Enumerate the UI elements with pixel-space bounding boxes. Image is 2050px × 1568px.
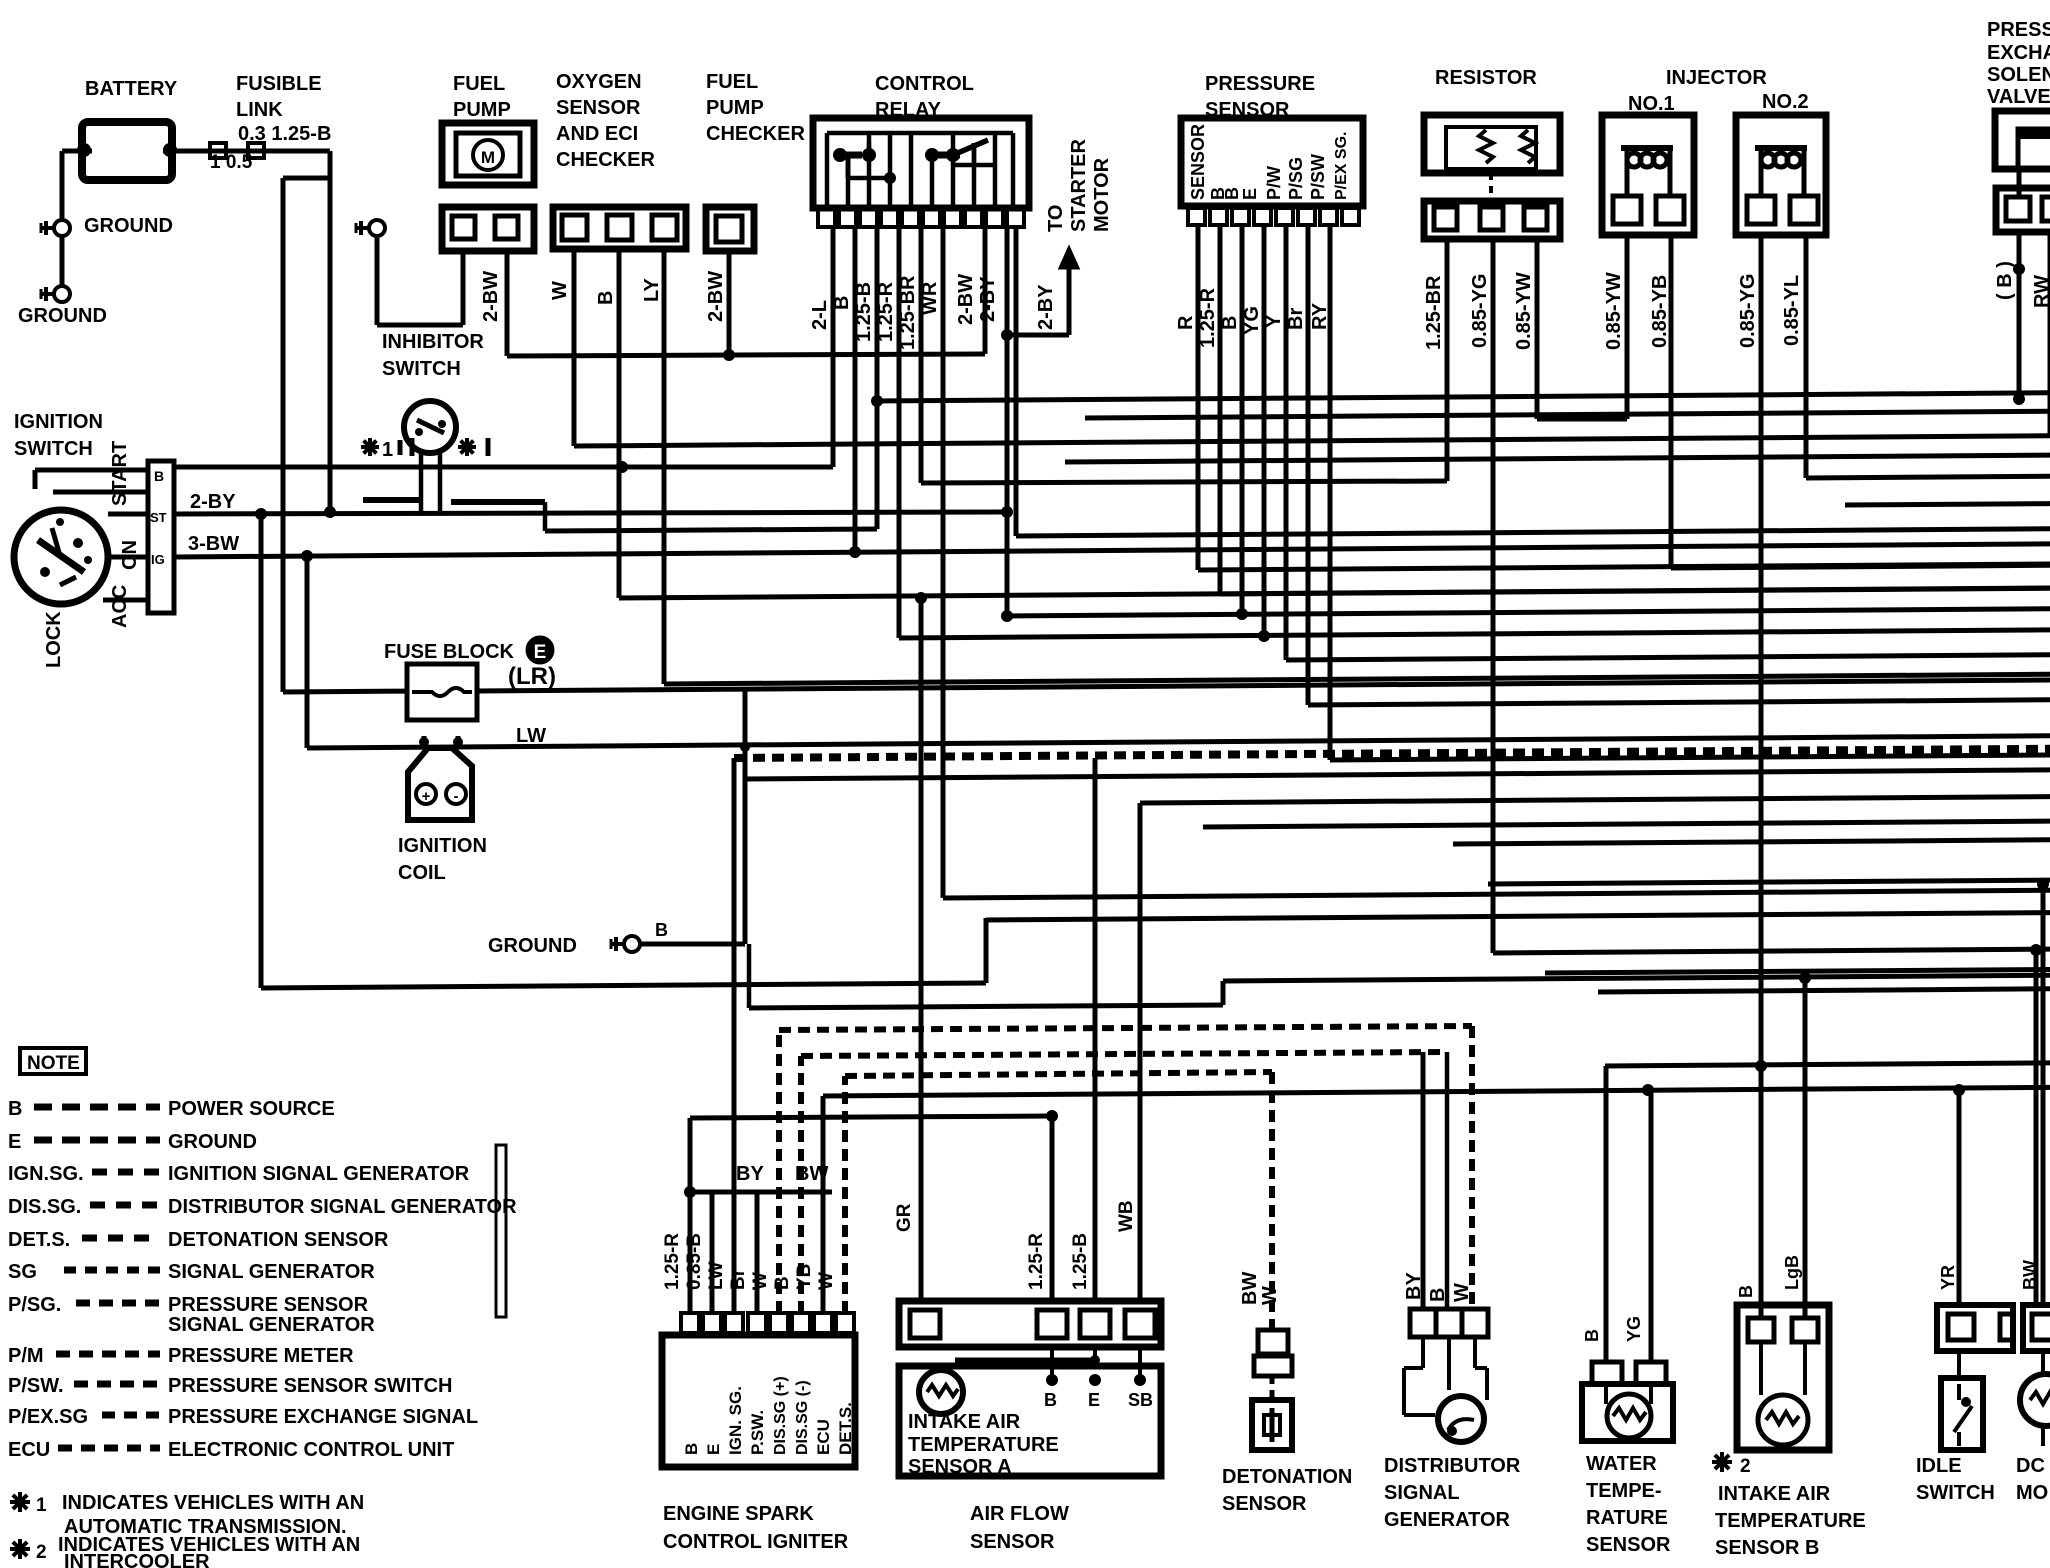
svg-text:B: B bbox=[772, 1276, 793, 1290]
wire BY bar bbox=[690, 1190, 832, 1195]
svg-text:1.25-R: 1.25-R bbox=[1026, 1233, 1047, 1290]
wire distributor BY riser bbox=[1421, 1052, 1426, 1309]
wire 1.25-B branch to right edge bbox=[877, 393, 2050, 401]
svg-text:E: E bbox=[534, 642, 547, 663]
igniter connector strip bbox=[681, 1313, 854, 1333]
control relay connector strip bbox=[818, 209, 1024, 227]
svg-text:E: E bbox=[1088, 1390, 1100, 1410]
svg-text:INTAKE AIR: INTAKE AIR bbox=[908, 1411, 1021, 1433]
svg-text:DETONATION SENSOR: DETONATION SENSOR bbox=[168, 1229, 389, 1251]
svg-text:SG: SG bbox=[8, 1261, 37, 1283]
svg-text:0.85-YW: 0.85-YW bbox=[1603, 272, 1625, 350]
node checker junction bbox=[723, 349, 735, 361]
svg-text:B: B bbox=[1427, 1288, 1449, 1302]
air flow inner link bbox=[955, 1358, 1095, 1363]
svg-text:2-BY: 2-BY bbox=[190, 491, 236, 513]
svg-text:ACC: ACC bbox=[109, 585, 131, 628]
svg-text:GROUND: GROUND bbox=[168, 1131, 257, 1153]
svg-text:INTERCOOLER: INTERCOOLER bbox=[64, 1551, 210, 1568]
detonation sensor connector bbox=[1258, 1330, 1288, 1354]
svg-text:YG: YG bbox=[1241, 306, 1263, 335]
ignition switch contact leads bbox=[33, 470, 38, 489]
svg-text:DIS.SG (-): DIS.SG (-) bbox=[794, 1380, 811, 1455]
svg-text:Br: Br bbox=[1285, 308, 1307, 330]
svg-text:WB: WB bbox=[1116, 1200, 1137, 1232]
svg-text:E: E bbox=[8, 1131, 21, 1153]
ignition switch SW1 rotor bbox=[14, 510, 108, 604]
svg-text:ENGINE SPARK: ENGINE SPARK bbox=[663, 1503, 814, 1525]
svg-text:SWITCH: SWITCH bbox=[382, 358, 461, 380]
svg-text:CHECKER: CHECKER bbox=[556, 149, 655, 171]
svg-text:2-BW: 2-BW bbox=[480, 271, 502, 322]
wire 1.25-BR to resistor bbox=[921, 481, 1447, 483]
svg-text:2-BY: 2-BY bbox=[1035, 284, 1057, 330]
pressure sensor B2 bbox=[1181, 118, 1363, 206]
wire igniter DIS.SG+ dashed bbox=[776, 1030, 782, 1313]
svg-text:0.85-YG: 0.85-YG bbox=[1737, 274, 1759, 348]
svg-text:DISTRIBUTOR SIGNAL GENERATOR: DISTRIBUTOR SIGNAL GENERATOR bbox=[168, 1196, 517, 1218]
wire battery positive through fusible link bbox=[163, 149, 330, 154]
svg-text:COIL: COIL bbox=[398, 862, 446, 884]
svg-text:3-BW: 3-BW bbox=[188, 533, 239, 555]
svg-text:WR: WR bbox=[919, 281, 941, 315]
svg-text:TO: TO bbox=[1045, 205, 1067, 232]
svg-text:B: B bbox=[8, 1098, 22, 1120]
battery B1 bbox=[82, 122, 172, 180]
injector NO.2 bbox=[1736, 115, 1826, 235]
air flow inner resistor symbol bbox=[919, 1370, 963, 1414]
idle switch SW3 bbox=[1957, 1351, 1961, 1378]
svg-text:0.85-B: 0.85-B bbox=[684, 1233, 705, 1290]
wire water temp feed y1066 bbox=[1605, 1063, 2050, 1066]
svg-text:B: B bbox=[1219, 316, 1241, 330]
svg-text:DIS.SG (+): DIS.SG (+) bbox=[772, 1376, 789, 1455]
svg-text:W: W bbox=[816, 1272, 837, 1290]
svg-text:DETONATION: DETONATION bbox=[1222, 1466, 1352, 1488]
wire run y884 bbox=[1488, 880, 2050, 884]
svg-text:IGN. SG.: IGN. SG. bbox=[726, 1386, 745, 1455]
wire relay pin10 run bbox=[1014, 227, 1019, 536]
svg-text:+: + bbox=[422, 788, 431, 805]
ground G4 (fuel pump) bbox=[356, 220, 385, 236]
asterisk2 mark bbox=[1712, 1452, 1732, 1472]
distributor connector bbox=[1410, 1309, 1436, 1337]
svg-text:NOTE: NOTE bbox=[27, 1053, 80, 1074]
wire resistor YG run y953 bbox=[1493, 949, 2050, 953]
wire run y981 bbox=[1223, 975, 2050, 981]
wire igniter DET.S dashed bbox=[842, 1076, 848, 1313]
svg-text:EXCHAN: EXCHAN bbox=[1987, 42, 2050, 64]
mark asterisk1 left bbox=[361, 438, 379, 456]
wire long drop from ST junction bbox=[259, 514, 264, 988]
svg-text:1.25-R: 1.25-R bbox=[875, 281, 897, 342]
svg-text:B: B bbox=[831, 296, 853, 310]
wire battery feed to fuse block bbox=[281, 178, 286, 692]
svg-text:0.85-YB: 0.85-YB bbox=[1649, 275, 1671, 348]
node 3-BW junction at x307 bbox=[301, 550, 313, 562]
wire run y462 bbox=[1065, 455, 2050, 462]
svg-text:ELECTRONIC CONTROL UNIT: ELECTRONIC CONTROL UNIT bbox=[168, 1439, 454, 1461]
svg-text:( B ): ( B ) bbox=[1994, 261, 2016, 300]
svg-text:2-BW: 2-BW bbox=[955, 274, 977, 325]
wire feed to right edge y920 bbox=[986, 913, 2050, 920]
wire B terminal to control relay 2-L pin bbox=[174, 465, 833, 470]
note asterisk1 bbox=[10, 1492, 30, 1512]
svg-text:P.SW.: P.SW. bbox=[748, 1410, 767, 1455]
solenoid valve connector bbox=[1996, 188, 2050, 232]
svg-text:MO: MO bbox=[2016, 1482, 2048, 1504]
svg-text:YB: YB bbox=[794, 1264, 815, 1290]
oxygen sensor connector J1 bbox=[553, 207, 686, 249]
svg-text:B: B bbox=[682, 1443, 701, 1455]
svg-text:BATTERY: BATTERY bbox=[85, 78, 178, 100]
idle switch connector bbox=[1937, 1305, 2013, 1351]
svg-text:P/SG: P/SG bbox=[1286, 157, 1306, 200]
svg-text:AIR FLOW: AIR FLOW bbox=[970, 1503, 1069, 1525]
svg-text:P/EX SG.: P/EX SG. bbox=[1333, 132, 1350, 200]
svg-text:2-BW: 2-BW bbox=[705, 271, 727, 322]
svg-text:YR: YR bbox=[1938, 1265, 1958, 1290]
wire 2-BW run to relay bbox=[507, 354, 985, 356]
svg-text:START: START bbox=[109, 441, 131, 506]
wire fuse block output to right edge bbox=[283, 689, 407, 695]
svg-text:IGN.SG.: IGN.SG. bbox=[8, 1163, 84, 1185]
ignition coil T1 bbox=[408, 748, 472, 820]
svg-text:SENSOR: SENSOR bbox=[556, 97, 641, 119]
wire water temp B riser bbox=[1604, 1066, 1609, 1362]
svg-text:CONTROL IGNITER: CONTROL IGNITER bbox=[663, 1531, 849, 1553]
fuse block circled E bbox=[527, 637, 553, 663]
wire dc motor riser bbox=[2041, 884, 2046, 1305]
fuse block F1 bbox=[407, 664, 477, 720]
node 1.25-B branch bbox=[871, 395, 883, 407]
svg-text:BY: BY bbox=[736, 1163, 764, 1185]
svg-text:(LR): (LR) bbox=[508, 663, 556, 690]
svg-text:BW: BW bbox=[2020, 1260, 2040, 1290]
svg-text:TEMPERATURE: TEMPERATURE bbox=[908, 1434, 1059, 1456]
svg-text:MOTOR: MOTOR bbox=[1091, 157, 1113, 232]
air flow pin dots bbox=[1046, 1374, 1058, 1386]
solenoid valve connector wire bbox=[2017, 169, 2022, 197]
svg-text:W: W bbox=[549, 281, 571, 300]
svg-text:R: R bbox=[1175, 315, 1197, 330]
resistor R1 bbox=[1424, 115, 1560, 173]
svg-text:SB: SB bbox=[1128, 1390, 1153, 1410]
ground G1 (battery) bbox=[41, 220, 70, 236]
wire igniter LW riser bbox=[732, 758, 737, 1313]
svg-text:VALVE: VALVE bbox=[1987, 86, 2050, 108]
svg-text:PRESSURE EXCHANGE SIGNAL: PRESSURE EXCHANGE SIGNAL bbox=[168, 1406, 478, 1428]
svg-text:LINK: LINK bbox=[236, 99, 283, 121]
legend separator bar bbox=[496, 1145, 506, 1317]
svg-text:PRESSURE: PRESSURE bbox=[1205, 73, 1315, 95]
svg-text:GROUND: GROUND bbox=[488, 935, 577, 957]
dc motor M2 bbox=[2041, 1351, 2045, 1372]
wire inhibitor branch riser bbox=[543, 502, 548, 531]
wire LgB riser bbox=[1803, 978, 1808, 1318]
ignition switch terminal bar bbox=[148, 461, 174, 613]
wire igniter DIS.SG- dashed bbox=[798, 1056, 804, 1313]
svg-text:1: 1 bbox=[36, 1495, 47, 1516]
svg-text:1.25-BR: 1.25-BR bbox=[1423, 275, 1445, 350]
svg-text:LOCK: LOCK bbox=[43, 611, 65, 668]
svg-text:DISTRIBUTOR: DISTRIBUTOR bbox=[1384, 1455, 1521, 1477]
svg-text:Y: Y bbox=[1263, 314, 1285, 328]
svg-text:GR: GR bbox=[894, 1203, 915, 1232]
svg-text:0.85-YW: 0.85-YW bbox=[1513, 272, 1535, 350]
svg-text:1.25-B: 1.25-B bbox=[1070, 1233, 1091, 1290]
wire igniter Br riser bbox=[755, 1192, 760, 1313]
wire igniter ECU run bbox=[821, 1096, 826, 1313]
svg-text:DC: DC bbox=[2016, 1455, 2045, 1477]
svg-text:SIGNAL GENERATOR: SIGNAL GENERATOR bbox=[168, 1314, 375, 1336]
svg-text:IGNITION SIGNAL GENERATOR: IGNITION SIGNAL GENERATOR bbox=[168, 1163, 470, 1185]
svg-text:WATER: WATER bbox=[1586, 1453, 1657, 1475]
water temperature sensor TH1 bbox=[1592, 1362, 1622, 1384]
wire idle switch riser bbox=[1957, 1092, 1962, 1305]
svg-text:YG: YG bbox=[1624, 1316, 1644, 1342]
svg-text:OXYGEN: OXYGEN bbox=[556, 71, 642, 93]
svg-text:1: 1 bbox=[382, 439, 393, 461]
note box bbox=[20, 1048, 86, 1074]
svg-text:ECU: ECU bbox=[814, 1419, 833, 1455]
wire fusible link drop bbox=[328, 151, 333, 514]
svg-text:CHECKER: CHECKER bbox=[706, 123, 805, 145]
wire branch y779 bbox=[745, 770, 2050, 779]
svg-text:PRESSU: PRESSU bbox=[1987, 19, 2050, 41]
svg-text:RATURE: RATURE bbox=[1586, 1507, 1668, 1529]
wire run y844 bbox=[1453, 840, 2050, 844]
detonation sensor D1 bbox=[1270, 1376, 1275, 1400]
svg-text:SOLENO: SOLENO bbox=[1987, 64, 2050, 86]
svg-text:GROUND: GROUND bbox=[18, 305, 107, 327]
svg-text:B: B bbox=[1736, 1285, 1756, 1298]
wire igniter B to airflow bbox=[688, 1118, 693, 1313]
wire LW dashed main run bbox=[734, 749, 2050, 758]
svg-text:LW: LW bbox=[516, 725, 546, 747]
wire run y973 bbox=[1545, 970, 2050, 974]
svg-text:B: B bbox=[154, 468, 164, 484]
svg-text:IDLE: IDLE bbox=[1916, 1455, 1962, 1477]
svg-text:W: W bbox=[1259, 1286, 1281, 1305]
wire run y418 bbox=[1085, 411, 2050, 418]
node relay B pin junction on 3-BW bbox=[849, 546, 861, 558]
note asterisk2 bbox=[10, 1539, 30, 1559]
wire run y827 bbox=[1203, 821, 2050, 827]
svg-text:IG: IG bbox=[151, 552, 165, 567]
wire run y505 stub bbox=[1845, 504, 2050, 505]
svg-text:E: E bbox=[1240, 188, 1260, 200]
svg-text:TEMPERATURE: TEMPERATURE bbox=[1715, 1510, 1866, 1532]
svg-text:INJECTOR: INJECTOR bbox=[1666, 67, 1767, 89]
wire LY run y684 bbox=[664, 674, 2050, 684]
node 2-BY starter branch bbox=[1001, 329, 1013, 341]
inhibitor switch SW2 bbox=[404, 401, 456, 453]
wire oxygen B run y598 bbox=[619, 588, 2050, 598]
svg-text:B: B bbox=[655, 920, 668, 940]
svg-text:2: 2 bbox=[1740, 1456, 1751, 1477]
svg-text:-: - bbox=[454, 788, 459, 805]
svg-text:FUSIBLE: FUSIBLE bbox=[236, 73, 322, 95]
air flow sensor B3 bbox=[899, 1366, 1161, 1476]
pressure exchange solenoid valve L1 bbox=[1995, 111, 2050, 169]
injector NO.1 bbox=[1602, 115, 1694, 235]
svg-text:1.25-BR: 1.25-BR bbox=[897, 275, 919, 350]
wire 1.25-B left run bbox=[545, 529, 877, 531]
fuel pump checker connector J2 bbox=[706, 207, 754, 251]
wire ground to junction bbox=[640, 942, 745, 947]
svg-text:INHIBITOR: INHIBITOR bbox=[382, 331, 484, 353]
wire 1.25-R run y638 bbox=[899, 630, 2050, 638]
svg-text:DIS.SG.: DIS.SG. bbox=[8, 1196, 81, 1218]
svg-text:SENSOR: SENSOR bbox=[1188, 124, 1208, 200]
node 2-BY ST junction bbox=[1001, 506, 1013, 518]
svg-text:DET.S.: DET.S. bbox=[836, 1402, 855, 1455]
wire lower-left feed run bbox=[261, 983, 986, 988]
wire ground stub bbox=[60, 236, 65, 286]
svg-text:2-BY: 2-BY bbox=[977, 276, 999, 322]
svg-text:FUEL: FUEL bbox=[706, 71, 758, 93]
svg-text:GROUND: GROUND bbox=[84, 215, 173, 237]
svg-text:INDICATES VEHICLES WITH AN: INDICATES VEHICLES WITH AN bbox=[62, 1492, 364, 1514]
svg-text:B: B bbox=[1582, 1329, 1602, 1342]
svg-text:SIGNAL GENERATOR: SIGNAL GENERATOR bbox=[168, 1261, 375, 1283]
svg-text:GENERATOR: GENERATOR bbox=[1384, 1509, 1510, 1531]
svg-text:IGNITION: IGNITION bbox=[398, 835, 487, 857]
svg-text:P/W: P/W bbox=[1264, 166, 1284, 200]
svg-text:W: W bbox=[1451, 1283, 1473, 1302]
svg-text:SWITCH: SWITCH bbox=[14, 438, 93, 460]
wire run y1008 bbox=[749, 1005, 1223, 1008]
distributor pickup G4 bbox=[1421, 1337, 1425, 1368]
inhibitor switch stems bbox=[419, 452, 424, 514]
svg-text:SENSOR: SENSOR bbox=[970, 1531, 1055, 1553]
svg-text:RW: RW bbox=[2031, 275, 2050, 308]
svg-text:0.85-YG: 0.85-YG bbox=[1469, 274, 1491, 348]
svg-text:P/M: P/M bbox=[8, 1345, 44, 1367]
svg-text:POWER SOURCE: POWER SOURCE bbox=[168, 1098, 335, 1120]
svg-text:INTAKE AIR: INTAKE AIR bbox=[1718, 1483, 1831, 1505]
svg-text:PUMP: PUMP bbox=[453, 99, 511, 121]
node ST drop junction bbox=[255, 508, 267, 520]
dc motor connector bbox=[2023, 1305, 2050, 1351]
svg-text:RESISTOR: RESISTOR bbox=[1435, 67, 1537, 89]
intake air temperature sensor B TH2 bbox=[1737, 1305, 1829, 1450]
node fusible drop on B wire bbox=[831, 226, 836, 467]
svg-text:W: W bbox=[750, 1272, 771, 1290]
wire ground riser bbox=[743, 690, 748, 944]
svg-text:PUMP: PUMP bbox=[706, 97, 764, 119]
fuel pump M1 bbox=[442, 123, 534, 185]
fuel pump connector bbox=[442, 207, 534, 251]
svg-text:LgB: LgB bbox=[1782, 1255, 1802, 1290]
svg-text:SWITCH: SWITCH bbox=[1916, 1482, 1995, 1504]
svg-text:PRESSURE METER: PRESSURE METER bbox=[168, 1345, 354, 1367]
svg-text:PRESSURE SENSOR: PRESSURE SENSOR bbox=[168, 1294, 369, 1316]
svg-text:P/SW: P/SW bbox=[1308, 154, 1328, 200]
svg-text:ECU: ECU bbox=[8, 1439, 50, 1461]
svg-text:ST: ST bbox=[150, 510, 167, 525]
svg-text:M: M bbox=[481, 148, 495, 167]
svg-text:SENSOR B: SENSOR B bbox=[1715, 1537, 1819, 1559]
ground G3 symbol bbox=[611, 936, 640, 952]
svg-text:LW: LW bbox=[706, 1261, 727, 1290]
svg-text:1.25-B: 1.25-B bbox=[853, 282, 875, 342]
svg-text:LY: LY bbox=[641, 278, 663, 302]
resistor connector bbox=[1424, 201, 1560, 239]
engine spark control igniter U1 bbox=[662, 1335, 855, 1467]
wire run y992 bbox=[1598, 989, 2050, 992]
svg-text:1.25-R: 1.25-R bbox=[662, 1233, 683, 1290]
svg-text:NO.2: NO.2 bbox=[1762, 91, 1809, 113]
svg-text:AND ECI: AND ECI bbox=[556, 123, 638, 145]
svg-text:PRESSURE SENSOR SWITCH: PRESSURE SENSOR SWITCH bbox=[168, 1375, 452, 1397]
svg-text:B: B bbox=[1044, 1390, 1057, 1410]
air flow sensor connector bbox=[899, 1301, 1161, 1347]
svg-text:CONTROL: CONTROL bbox=[875, 73, 974, 95]
svg-text:FUSE BLOCK: FUSE BLOCK bbox=[384, 641, 515, 663]
mark asterisk1 right bbox=[458, 438, 476, 456]
svg-text:B: B bbox=[595, 291, 617, 305]
svg-text:SENSOR A: SENSOR A bbox=[908, 1456, 1012, 1478]
svg-text:FUEL: FUEL bbox=[453, 73, 505, 95]
wire battery negative to ground bbox=[62, 149, 92, 154]
svg-text:P/SG.: P/SG. bbox=[8, 1294, 61, 1316]
svg-text:SENSOR: SENSOR bbox=[1222, 1493, 1307, 1515]
svg-text:IGNITION: IGNITION bbox=[14, 411, 103, 433]
ground G2 bbox=[41, 286, 70, 302]
svg-text:BW: BW bbox=[1239, 1272, 1261, 1305]
inhibitor contact bars bbox=[363, 497, 421, 503]
wire resistor to injector1 jog bbox=[1537, 417, 1627, 422]
svg-text:0.85-YL: 0.85-YL bbox=[1781, 275, 1803, 346]
svg-text:STARTER: STARTER bbox=[1068, 138, 1090, 232]
control relay K1 bbox=[813, 118, 1029, 208]
pressure sensor connector strip bbox=[1188, 208, 1359, 225]
svg-text:P/SW.: P/SW. bbox=[8, 1375, 64, 1397]
svg-text:Br: Br bbox=[728, 1268, 749, 1290]
svg-text:2-L: 2-L bbox=[809, 300, 831, 330]
wire WR run y898 bbox=[943, 890, 2050, 898]
svg-text:B: B bbox=[1222, 187, 1242, 200]
svg-text:SENSOR: SENSOR bbox=[1586, 1534, 1671, 1556]
wire dc second riser bbox=[2034, 950, 2039, 1305]
svg-text:2: 2 bbox=[36, 1542, 47, 1563]
wire water temp YG riser bbox=[1649, 1092, 1654, 1362]
wire fuel pump pin1 to ground bbox=[461, 251, 466, 325]
svg-text:TEMPE-: TEMPE- bbox=[1586, 1480, 1662, 1502]
wire starter branch bbox=[1007, 333, 1069, 338]
svg-text:P/EX.SG: P/EX.SG bbox=[8, 1406, 88, 1428]
svg-text:DET.S.: DET.S. bbox=[8, 1229, 70, 1251]
wire igniter E riser bbox=[710, 1192, 715, 1313]
svg-text:E: E bbox=[704, 1444, 723, 1455]
svg-text:SIGNAL: SIGNAL bbox=[1384, 1482, 1460, 1504]
svg-text:1.25-R: 1.25-R bbox=[1197, 287, 1219, 348]
